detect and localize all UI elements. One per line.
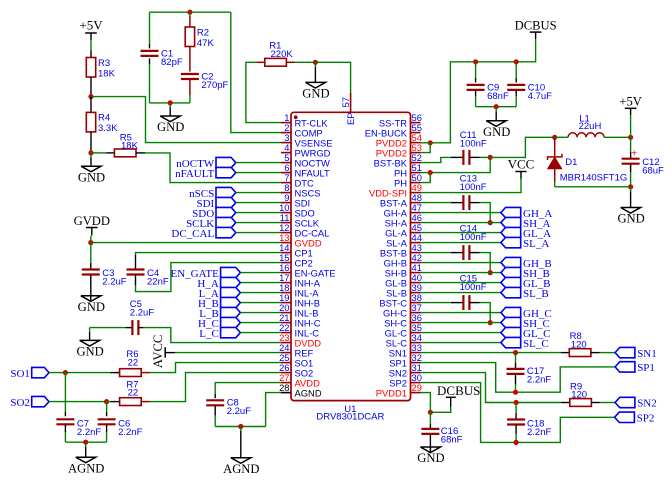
port SCLK [186,217,236,230]
wire pin 46 to port SH_A [421,222,501,224]
wire C14 left lead [451,252,464,254]
node AA junction PVDD1/DCBUS/C16 [428,410,433,415]
wire PVDD2 pin 53 branch [421,143,431,153]
power DCBUS (bottom) [430,383,480,412]
node O junction C11/PH [488,155,493,160]
wire node B to R5 [91,152,114,154]
wire C10 top lead [515,62,517,83]
wire analog ground rail [65,441,106,443]
power +5V (left) [79,17,103,50]
port nSCS [189,187,236,200]
svg-text:AGND: AGND [295,388,322,399]
svg-text:22: 22 [128,357,139,368]
node K junction C10/DCBUS [514,59,519,64]
port DC_CAL [171,227,235,240]
wire R7 to SO2 pin 26 [150,373,281,402]
node V junction C15/SH [488,320,493,325]
wire node O to PH pin 51 [421,157,491,172]
wire +5V to R3 [90,51,92,58]
svg-text:D1: D1 [565,157,577,168]
wire pin 41 to port SH_B [421,272,501,274]
wire R1 left lead [256,61,264,63]
svg-text:GND: GND [78,170,105,184]
wire R9 to port SN2 [600,402,616,404]
wire SN1 pin 33 row [421,352,562,354]
ground AGND below C8 [223,427,259,476]
resistor R1 220K [265,41,294,67]
ground AGND below C6 C7 [68,442,104,475]
wire R9 left lead [561,402,570,404]
svg-text:SL_A: SL_A [523,238,549,250]
wire DCBUS to PVDD2 pin 54 [421,142,431,144]
svg-text:L_C: L_C [199,328,219,340]
svg-text:AVCC: AVCC [151,335,165,368]
svg-text:22uH: 22uH [579,121,602,132]
wire C4 top lead to CP1 [136,253,282,269]
port SL_A [501,237,549,249]
capacitor C11 100nF [460,130,487,165]
wire L_C to pin 22 [240,332,281,334]
wire C16 top lead [429,412,431,428]
node S junction C12/D1/GND [628,184,633,189]
wire node E to EP pin 57 [315,62,350,93]
wire H_A to pin 17 [240,282,281,284]
wire C9 top lead [475,62,477,83]
wire D1 anode rail [555,186,631,188]
wire node O to D1 node [490,137,555,157]
port EN_GATE [171,267,241,280]
inductor L1 22uH [568,113,604,137]
svg-text:R3: R3 [98,58,110,69]
svg-text:18K: 18K [121,141,139,152]
port nOCTW [176,157,235,170]
wire C9 bottom lead [475,90,477,107]
node H junction SO2/C6/R7 [104,399,109,404]
capacitor C13 100nF [460,173,487,210]
wire C18 bottom lead [515,425,517,443]
wire C13 left lead [451,202,464,204]
capacitor C7 2.2nF [56,419,101,439]
svg-text:GND: GND [78,300,105,314]
capacitor C4 22nF [127,268,169,288]
wire nFAULT to pin 6 [236,172,281,174]
node C junction top rail/R2 [187,10,192,15]
wire BST-BK pin 52 jog [421,157,452,162]
ground GND below C9 C10 [483,107,510,139]
wire pin 35 to port GL_C [421,332,501,334]
wire pin 42 to port GH_B [421,262,501,264]
port SH_C [501,317,550,329]
wire node H to C6 [106,402,108,417]
svg-text:68uF: 68uF [642,165,664,176]
wire PH pin 50 branch [421,173,431,183]
wire R6 to SO1 pin 25 [150,363,281,373]
svg-text:SO1: SO1 [10,368,30,380]
svg-text:GND: GND [417,451,444,465]
wire R7 right lead [141,401,150,403]
wire C12 bottom lead [630,164,632,187]
svg-text:120: 120 [571,390,587,401]
port nFAULT [175,167,236,180]
port L_B [199,307,240,320]
svg-text:29: 29 [412,382,422,393]
wire C3 to ground [90,275,92,296]
wire nOCTW to pin 5 [236,162,281,164]
wire VCC to VDD-SPI pin 49 [421,179,522,193]
node I junction AGND rail [83,440,88,445]
wire C13 right lead [469,202,479,204]
svg-text:2.2nF: 2.2nF [527,427,551,438]
power DCBUS (top) [515,19,557,41]
wire C15 right lead [469,302,479,304]
ground GND below compensation network [157,103,184,134]
wire L_B to pin 20 [240,312,281,314]
wire C1 bottom lead [149,58,151,103]
wire R1 right to node E [295,61,316,63]
node P junction PH pins [428,170,433,175]
wire VSENSE net to pin 3 [91,97,281,143]
wire C18 top lead [515,403,517,420]
capacitor C14 100nF [460,223,487,260]
wire SO2 to node H [49,401,107,403]
svg-text:18K: 18K [98,68,116,79]
ground GND below C12 [617,187,644,226]
resistor R8 120 [569,331,591,357]
capacitor C2 270pF [181,72,229,92]
diode D1 MBR140SFT1G schottky [548,137,628,187]
wire SO1 to node G [49,372,65,374]
svg-text:GND: GND [76,345,103,359]
svg-text:3.3K: 3.3K [98,123,118,134]
wire C8 bottom lead [214,406,216,427]
svg-text:100nF: 100nF [460,282,487,293]
port H_C [198,317,240,330]
wire R4 to node B [90,132,92,153]
wire DCBUS rail down [430,40,535,143]
node J junction C8/AGND [238,424,243,429]
svg-text:GND: GND [302,87,329,101]
svg-text:120: 120 [571,339,587,350]
wire C4 bottom lead to CP2 [136,263,282,292]
wire top rail to COMP pin 2 [231,12,281,132]
svg-text:VCC: VCC [508,157,535,172]
node Q junction D1/L1 [552,135,557,140]
port GL_A [501,227,551,239]
capacitor C3 2.2uF [82,268,127,288]
wire BST row pin 48 [421,202,451,204]
svg-text:+5V: +5V [619,95,642,109]
ground GND at node E [302,62,329,100]
node F junction GVDD/C3/pin13 [88,240,93,245]
wire BST row pin 38 [421,302,451,304]
svg-text:28: 28 [279,382,289,393]
wire R8 left lead [561,352,569,354]
wire R8 to port SN1 [600,352,616,354]
svg-text:GND: GND [483,125,510,139]
wire EN_GATE to pin 16 [240,272,281,274]
wire pin 39 to port SL_B [421,292,501,294]
wire pin 44 to port SL_A [421,242,501,244]
svg-text:SL_C: SL_C [523,338,549,350]
wire SDO to pin 10 [236,212,281,214]
svg-text:DCBUS: DCBUS [515,19,557,33]
wire R5 to DTC pin 7 [145,153,281,183]
power GVDD [74,214,110,236]
svg-text:57: 57 [340,97,351,107]
svg-text:100nF: 100nF [460,232,487,243]
wire C14 to SH row [480,253,491,273]
port SDI [196,197,235,210]
wire R2 top lead [189,12,191,27]
wire PVDD1 pin 29 riser [421,393,431,413]
port SL_C [501,337,549,349]
svg-text:GND: GND [157,120,184,134]
svg-text:R2: R2 [197,27,209,38]
ground GND below C16 [417,447,444,465]
capacitor C6 2.2nF [98,419,143,439]
wire C7 bottom lead [64,425,66,443]
port GL_B [501,277,551,289]
wire C17 bottom lead [515,374,517,392]
wire C5 left lead [126,327,133,329]
svg-text:GND: GND [617,212,644,226]
wire C5 to DVDD pin 23 [143,328,281,343]
resistor R5 18K [114,132,138,157]
svg-text:R4: R4 [98,113,110,124]
node L junction C9/DCBUS [473,59,478,64]
wire C6 bottom lead [106,425,108,443]
wire AGND pin 28 riser [266,393,281,427]
svg-text:SO2: SO2 [10,397,30,409]
node A junction R3/R4/VSENSE [88,94,93,99]
resistor R6 22 [120,349,142,377]
wire C10 bottom lead [515,90,517,107]
port H_A [197,277,240,290]
wire node Q to L1 [555,136,568,138]
port H_B [198,297,240,310]
wire R3 to node A [90,77,92,97]
wire node G to R6 [65,372,119,374]
capacitor C15 100nF [460,273,487,310]
node U junction C14/SH [488,270,493,275]
svg-text:SN2: SN2 [637,398,657,410]
wire R1 left to RT-CLK pin 1 [246,62,281,122]
svg-text:68nF: 68nF [487,91,509,102]
svg-text:SP1: SP1 [637,362,655,374]
node Z junction C18/SP2 [514,440,519,445]
wire SP2 pin 30 to port SP2 [421,383,615,443]
capacitor C10 4.7uF [507,83,552,103]
power VCC [508,157,535,179]
wire BST row pin 43 [421,252,451,254]
node R junction L1/+5V/C12 [628,135,633,140]
resistor R3 18K [86,58,115,80]
wire R8 right lead [591,352,600,354]
capacitor C8 2.2uF [206,397,251,417]
ground GND below C5 left [76,328,103,359]
svg-text:2.2uF: 2.2uF [102,276,126,287]
svg-text:47K: 47K [197,38,215,49]
port SH_A [501,217,551,229]
wire C8 AGND rail [215,426,265,428]
wire compensation bottom rail [150,102,190,104]
ground GND below node B [78,153,105,185]
capacitor C9 68nF [467,83,509,103]
wire R1 right lead [286,61,294,63]
wire H_B to pin 19 [240,302,281,304]
node E junction R1/GND/EP [313,60,318,65]
resistor R9 120 [570,381,592,406]
wire L_A to pin 18 [240,292,281,294]
wire R5 right lead [136,152,145,154]
wire node G to C7 [64,373,66,417]
wire DC_CAL to pin 12 [236,232,281,234]
svg-text:2.2uF: 2.2uF [130,307,154,318]
power +5V (right) [619,95,642,138]
svg-text:GVDD: GVDD [74,214,110,228]
svg-text:2.2nF: 2.2nF [77,427,101,438]
resistor R7 22 [120,379,142,405]
node D junction bottom rail/GND [168,100,173,105]
node X junction C17/SP1 [513,390,518,395]
node M junction bottom rail GND [494,104,499,109]
svg-text:2.2nF: 2.2nF [118,427,142,438]
wire SCLK to pin 11 [236,222,281,224]
svg-text:2.2uF: 2.2uF [227,406,251,417]
wire AVCC to REF pin 24 [175,352,281,354]
op-amp U1 DRV8301DCAR gate driver IC [279,93,422,422]
svg-text:DCBUS: DCBUS [437,383,480,398]
node W junction SN1/C17 [513,350,518,355]
wire C11 right lead [469,156,479,158]
svg-text:22nF: 22nF [147,276,169,287]
wire C14 right lead [469,252,479,254]
port SL_B [501,287,549,299]
wire C5 left to ground [90,327,126,329]
capacitor C16 68nF [421,426,462,446]
wire GVDD to node F [90,236,92,243]
wire C2 bottom lead [189,79,191,103]
port L_A [199,287,241,300]
svg-text:220K: 220K [271,49,294,60]
wire compensation top rail [150,11,231,13]
wire R9 right lead [591,402,599,404]
wire C9 C10 bottom rail [476,106,517,108]
svg-text:82pF: 82pF [161,57,183,68]
node B junction R4/R5/GND [88,150,93,155]
capacitor C18 2.2nF [507,418,551,438]
svg-text:SP2: SP2 [637,413,655,425]
wire AVDD pin 27 to C8 [215,383,281,394]
svg-text:+5V: +5V [79,17,103,32]
wire C15 to SH row [480,303,491,323]
wire node H to R7 [107,401,120,403]
wire pin 40 to port GL_B [421,282,501,284]
port SN1 [615,347,657,359]
wire GVDD net to pin 13 [91,242,281,244]
power AVCC [151,335,175,368]
svg-text:AGND: AGND [223,462,259,476]
wire C5 right lead [138,327,143,329]
wire node F to C3 [90,243,92,270]
svg-text:22: 22 [128,388,139,399]
svg-text:nFAULT: nFAULT [175,168,214,180]
port SP2 [615,412,655,424]
wire pin 45 to port GL_A [421,232,501,234]
svg-text:SN1: SN1 [637,348,657,360]
port GL_C [501,327,551,339]
svg-text:AGND: AGND [68,461,104,475]
wire C12 top lead [631,137,638,159]
svg-text:PVDD1: PVDD1 [376,388,407,399]
resistor R2 47K [185,27,214,49]
wire SP1 pin 32 to port SP1 [421,363,616,393]
wire node A to R4 [90,97,92,113]
node Y junction SN2/C18 [514,400,519,405]
wire pin 47 to port GH_A [421,212,501,214]
port SN2 [615,397,657,409]
port SH_B [501,267,550,279]
wire pin 34 to port SL_C [421,342,501,344]
svg-text:100nF: 100nF [460,182,487,193]
capacitor C17 2.2nF [507,366,552,386]
node N junction PVDD2 pins [428,140,433,145]
wire C11 left lead [451,156,463,158]
capacitor C12 68uF polarized [622,157,664,177]
svg-text:4.7uF: 4.7uF [528,91,552,102]
port SP1 [615,362,655,374]
port GH_A [501,207,552,219]
wire C16 to ground [429,434,431,447]
port GH_C [501,307,552,319]
svg-text:EP: EP [345,112,356,125]
wire C15 left lead [451,302,464,304]
wire L1 to node R [604,136,631,138]
port GH_B [501,257,552,269]
wire C13 to SH row [480,203,491,223]
svg-text:SL_B: SL_B [523,288,549,300]
wire pin 36 to port SH_C [421,322,501,324]
node T junction C13/SH [488,220,493,225]
svg-text:270pF: 270pF [201,80,228,91]
wire SN2 pin 31 row [421,373,562,403]
svg-text:2.2nF: 2.2nF [527,375,551,386]
svg-text:DC_CAL: DC_CAL [171,228,214,240]
wire R6 right lead [141,372,150,374]
svg-text:MBR140SFT1G: MBR140SFT1G [560,173,628,184]
port L_C [199,327,240,340]
svg-text:68nF: 68nF [441,435,463,446]
port SO1 [10,367,49,380]
wire H_C to pin 21 [240,322,281,324]
node G junction SO1/C7/R6 [63,370,68,375]
ground GND below C3 [78,296,105,314]
wire nSCS to pin 8 [236,192,281,194]
port SO2 [10,396,49,409]
wire R2 to C2 [189,47,191,72]
wire C1 top lead [149,12,151,48]
resistor R4 3.3K [86,112,118,134]
wire C11 to node O [480,156,491,158]
capacitor C1 82pF [141,49,183,69]
wire C17 top lead [515,353,517,369]
wire pin 37 to port GH_C [421,312,501,314]
capacitor C5 2.2uF [130,299,154,335]
svg-text:DRV8301DCAR: DRV8301DCAR [316,411,384,422]
wire C8 top lead [214,394,216,398]
wire SDI to pin 9 [236,202,281,204]
port SDO [192,207,236,220]
